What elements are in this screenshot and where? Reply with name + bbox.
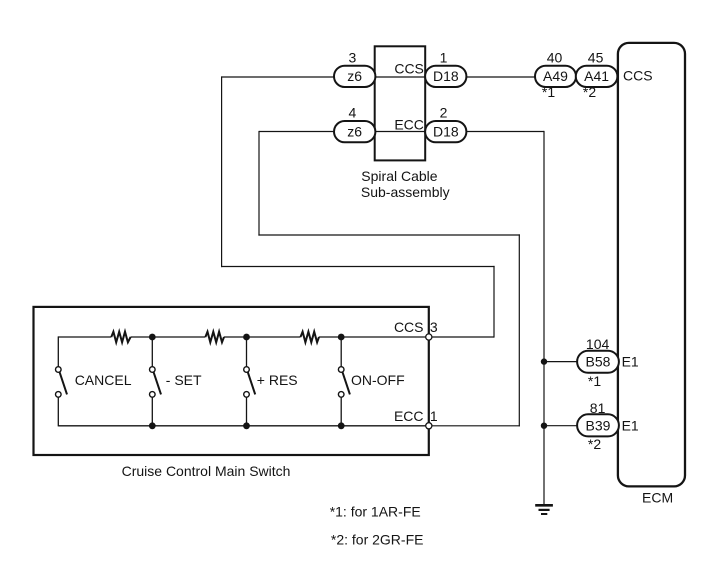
svg-text:z6: z6 xyxy=(347,68,362,84)
wire B58 to junction xyxy=(544,361,577,363)
ECM box xyxy=(618,43,685,487)
junction dot B58 net xyxy=(541,358,547,364)
svg-text:E1: E1 xyxy=(622,354,639,370)
svg-text:*1: for 1AR-FE: *1: for 1AR-FE xyxy=(330,504,421,520)
wire vertical x221.6 CCS xyxy=(221,76,223,267)
ground xyxy=(535,505,553,514)
svg-text:*1: *1 xyxy=(542,84,555,100)
svg-text:*1: *1 xyxy=(588,373,601,389)
resistor R1 xyxy=(111,332,130,343)
svg-text:ON-OFF: ON-OFF xyxy=(351,372,405,388)
wire vertical x519.3 ECC xyxy=(518,234,520,426)
wire ECC row from z6 pin4 to x544 xyxy=(259,131,544,133)
svg-text:CANCEL: CANCEL xyxy=(75,372,132,388)
svg-text:CCS: CCS xyxy=(623,68,653,84)
svg-text:Sub-assembly: Sub-assembly xyxy=(361,184,450,200)
wire vertical x494 to switch CCS pin3 xyxy=(493,266,495,338)
connector D18 pin 2 xyxy=(425,121,466,142)
wire horizontal y266.5 CCS xyxy=(221,266,495,268)
svg-text:3: 3 xyxy=(430,319,438,335)
svg-text:D18: D18 xyxy=(433,123,459,139)
cruise control main switch box xyxy=(34,307,429,455)
svg-text:1: 1 xyxy=(430,408,438,424)
svg-text:45: 45 xyxy=(588,49,604,65)
svg-text:E1: E1 xyxy=(622,418,639,434)
wire switch3 stubs xyxy=(246,336,248,366)
svg-text:2: 2 xyxy=(440,105,448,121)
connector B58 xyxy=(577,351,619,373)
wire switch1 stubs xyxy=(57,336,59,366)
svg-text:A41: A41 xyxy=(584,68,609,84)
svg-text:4: 4 xyxy=(349,105,357,121)
svg-text:D18: D18 xyxy=(433,68,459,84)
resistor R3 xyxy=(301,332,320,343)
svg-text:- SET: - SET xyxy=(166,372,202,388)
svg-text:*2: for 2GR-FE: *2: for 2GR-FE xyxy=(331,532,424,548)
svg-text:A49: A49 xyxy=(543,68,568,84)
connector z6 pin 4 xyxy=(334,121,375,142)
svg-text:B39: B39 xyxy=(586,417,611,433)
wire switch2 stubs xyxy=(151,336,153,366)
wire switch top bus y337 xyxy=(58,336,111,338)
connector A41 xyxy=(576,66,618,87)
svg-text:*2: *2 xyxy=(583,84,596,100)
svg-text:3: 3 xyxy=(349,49,357,65)
wire switch pin3 to x494 xyxy=(429,336,494,338)
resistor R2 xyxy=(205,332,224,343)
wire switch4 stubs xyxy=(340,336,342,366)
junction dots top bus xyxy=(149,334,345,341)
switch CANCEL xyxy=(56,367,68,398)
wire B39 to junction xyxy=(544,425,577,427)
svg-text:40: 40 xyxy=(547,49,563,65)
svg-text:ECM: ECM xyxy=(642,489,673,505)
svg-text:104: 104 xyxy=(586,336,610,352)
pin 1 terminal of main switch xyxy=(426,423,432,429)
connector A49 xyxy=(535,66,576,87)
svg-text:1: 1 xyxy=(440,49,448,65)
spiral cable sub-assembly box xyxy=(375,46,426,160)
switch ON-OFF xyxy=(338,367,349,398)
wire switch bottom bus y425.8 xyxy=(58,425,429,427)
svg-text:B58: B58 xyxy=(586,353,611,369)
wire switch pin1 to x519.3 xyxy=(429,425,520,427)
svg-text:ECC: ECC xyxy=(394,408,424,424)
svg-text:CCS: CCS xyxy=(394,319,424,335)
wire vertical x544 ground net xyxy=(543,131,545,504)
wire horizontal y235 ECC xyxy=(258,234,520,236)
connector B39 xyxy=(577,414,619,436)
junction dot B39 net xyxy=(541,423,547,429)
wire CCS row from z6 pin3 to A49 xyxy=(222,76,535,78)
svg-text:z6: z6 xyxy=(347,123,362,139)
junction dots bottom bus xyxy=(149,422,345,429)
svg-text:ECC: ECC xyxy=(394,117,424,133)
switch + RES xyxy=(244,367,256,398)
svg-text:*2: *2 xyxy=(588,436,601,452)
pin 3 terminal of main switch xyxy=(426,334,432,340)
svg-text:+ RES: + RES xyxy=(257,372,298,388)
svg-text:Cruise Control Main Switch: Cruise Control Main Switch xyxy=(122,463,291,479)
svg-text:CCS: CCS xyxy=(394,61,424,77)
svg-text:81: 81 xyxy=(590,400,606,416)
svg-text:Spiral Cable: Spiral Cable xyxy=(361,168,437,184)
wire vertical x259 ECC xyxy=(258,131,260,236)
switch - SET xyxy=(150,367,162,398)
connector z6 pin 3 xyxy=(334,66,375,87)
connector D18 pin 1 xyxy=(425,66,466,87)
